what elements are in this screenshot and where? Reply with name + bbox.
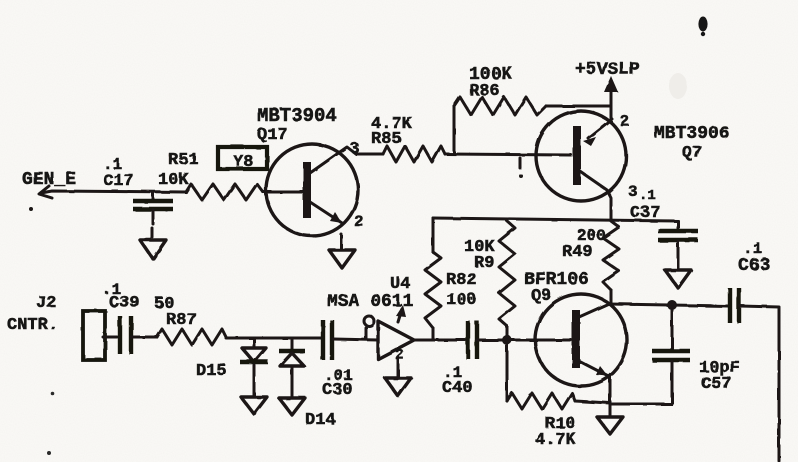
svg-text:2: 2: [620, 113, 630, 131]
svg-text:2: 2: [354, 213, 364, 231]
svg-text:+5VSLP: +5VSLP: [575, 60, 640, 80]
svg-text:R82: R82: [446, 271, 477, 290]
svg-text:R49: R49: [562, 243, 593, 262]
svg-text:R85: R85: [371, 130, 402, 149]
svg-text:MBT3906: MBT3906: [654, 124, 730, 144]
svg-text:3: 3: [628, 183, 638, 201]
svg-text:C40: C40: [442, 379, 473, 398]
svg-text:3: 3: [350, 140, 360, 158]
svg-text:R86: R86: [469, 82, 500, 101]
svg-text:C17: C17: [103, 172, 134, 191]
svg-text:Q7: Q7: [682, 144, 702, 163]
svg-text:.1: .1: [639, 188, 656, 204]
svg-text:MBT3904: MBT3904: [257, 105, 337, 127]
svg-text:R87: R87: [166, 311, 197, 330]
svg-text:10K: 10K: [158, 171, 189, 190]
svg-text:C57: C57: [701, 375, 732, 394]
svg-text:R51: R51: [168, 151, 199, 170]
svg-text:C30: C30: [322, 381, 353, 400]
svg-text:R9: R9: [474, 254, 494, 273]
svg-text:C37: C37: [630, 204, 661, 223]
svg-text:Q17: Q17: [257, 126, 288, 145]
svg-text:Q9: Q9: [531, 287, 551, 306]
svg-text:2: 2: [395, 347, 404, 364]
svg-text:C39: C39: [109, 294, 140, 313]
svg-text:Y8: Y8: [233, 153, 253, 172]
svg-text:CNTR.: CNTR.: [7, 316, 58, 335]
svg-text:100: 100: [446, 291, 477, 310]
svg-text:D15: D15: [196, 362, 227, 381]
svg-text:C63: C63: [738, 256, 770, 276]
svg-text:J2: J2: [36, 294, 56, 313]
svg-text:4.7K: 4.7K: [535, 431, 577, 450]
svg-text:D14: D14: [305, 411, 336, 430]
